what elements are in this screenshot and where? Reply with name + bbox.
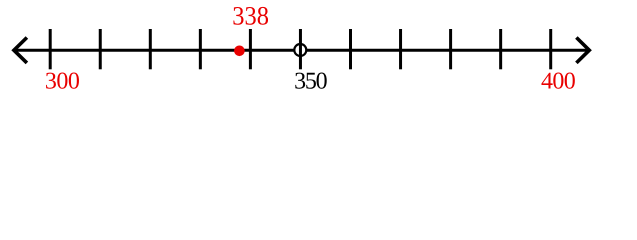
- svg-text:338: 338: [232, 1, 269, 31]
- svg-text:300: 300: [45, 68, 80, 94]
- svg-text:350: 350: [294, 68, 328, 94]
- svg-text:400: 400: [541, 68, 576, 94]
